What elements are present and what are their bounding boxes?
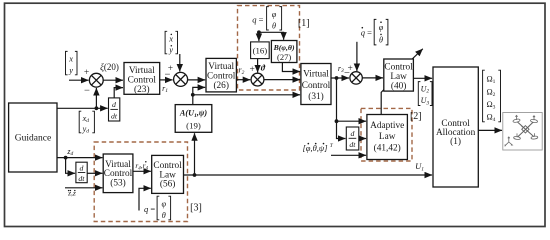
svg-text:(40): (40) — [391, 80, 407, 91]
wire A19 node down to A19 box top — [192, 95, 194, 105]
block A(U1,psi) (19) — [175, 105, 212, 133]
svg-text:−: − — [84, 85, 90, 96]
svg-text:ξ(20): ξ(20) — [100, 62, 119, 72]
label vector xd yd — [79, 111, 94, 133]
wire zddot zdot into Virtual Control 53 — [65, 187, 102, 189]
svg-text:x: x — [68, 53, 73, 63]
svg-text:(26): (26) — [213, 80, 229, 91]
svg-text:φ: φ — [379, 23, 384, 32]
wire Virtual Control 53 to Control Law 56 — [133, 170, 151, 172]
wire node down into ddt3 — [337, 121, 346, 138]
label qdot equals phidot thetadot — [361, 19, 388, 45]
svg-text:Ω1: Ω1 — [486, 75, 495, 85]
svg-text:U1: U1 — [415, 161, 424, 172]
svg-text:Control: Control — [302, 81, 331, 91]
wire S1 to Virtual Control 23 — [103, 79, 123, 81]
svg-text:U2: U2 — [421, 84, 430, 94]
label vector U2 U3 — [418, 82, 432, 107]
wire zd branch down into ddt2 — [66, 158, 76, 174]
summing junction S3 — [251, 73, 264, 86]
svg-text:Guidance: Guidance — [15, 134, 51, 144]
label q equals phi theta (box 3) — [144, 196, 171, 220]
svg-text:(31): (31) — [308, 91, 324, 102]
svg-text:zd: zd — [66, 147, 73, 157]
svg-text:q =: q = — [361, 28, 372, 38]
quadrotor icon — [517, 122, 534, 137]
wire S3 to Virtual Control 31 — [264, 79, 300, 81]
svg-text:Law: Law — [390, 72, 407, 82]
svg-text:z,z: z,z — [67, 188, 76, 197]
svg-text:U3: U3 — [421, 96, 430, 106]
svg-text:[2]: [2] — [410, 111, 422, 122]
svg-text:θ: θ — [162, 211, 166, 220]
wire Virtual Control 31 to S4 — [331, 77, 349, 79]
svg-text:Adaptive: Adaptive — [370, 121, 404, 131]
label q equals phi theta (box 1) — [252, 7, 281, 31]
block Adaptive Law (41,42) — [367, 115, 408, 160]
block Virtual Control (23) — [124, 63, 160, 95]
svg-text:Control: Control — [384, 62, 413, 72]
svg-text:(16): (16) — [253, 45, 268, 55]
dashed subsystem box [3] — [94, 142, 187, 222]
svg-text:Control: Control — [128, 76, 157, 86]
wire q vector right into B block 27 — [259, 32, 284, 39]
block quadrotor plant — [503, 113, 542, 151]
svg-text:dt: dt — [78, 174, 85, 183]
dashed subsystem box [2] — [361, 108, 412, 161]
wire ddt2 to Virtual Control 53 — [87, 172, 102, 174]
svg-text:Control: Control — [207, 71, 236, 81]
wire U1 branch up into A19 bottom — [194, 133, 196, 175]
wire Virtual Control 23 to S2 — [160, 79, 173, 81]
svg-text:d: d — [79, 163, 83, 172]
block Guidance — [9, 103, 57, 172]
wire node into Adaptive Law top input — [337, 120, 367, 122]
svg-text:φ: φ — [272, 10, 277, 19]
svg-text:r4,r4: r4,r4 — [135, 161, 148, 171]
wire B27 into Virtual Control 31 — [282, 63, 300, 72]
svg-text:Virtual: Virtual — [129, 66, 155, 76]
svg-text:θ: θ — [379, 35, 383, 44]
svg-text:(19): (19) — [186, 120, 201, 130]
wire Guidance zd to Virtual Control 53 — [57, 157, 102, 159]
svg-text:(23): (23) — [134, 84, 150, 95]
wire qdot vector down into S4 — [356, 42, 358, 71]
svg-text:(53): (53) — [110, 177, 126, 188]
svg-text:(1): (1) — [450, 136, 461, 147]
svg-text:−: − — [344, 68, 350, 79]
svg-text:r3: r3 — [338, 64, 344, 74]
summing junction S2 — [174, 72, 188, 86]
svg-text:[1]: [1] — [298, 18, 310, 29]
label vector x y — [66, 51, 78, 74]
svg-text:xd: xd — [82, 114, 90, 124]
svg-text:φ: φ — [162, 199, 167, 208]
wire diagonal output from Control Law 40 — [407, 49, 423, 64]
block (16) — [251, 42, 270, 59]
d/dt 2 fraction — [78, 163, 86, 182]
svg-text:Ω2: Ω2 — [486, 87, 495, 97]
svg-text:yd: yd — [82, 124, 90, 134]
block Control Law (40) — [384, 59, 414, 91]
svg-text:y: y — [68, 65, 73, 75]
svg-text:[3]: [3] — [190, 202, 202, 213]
svg-text:q =: q = — [144, 204, 155, 214]
wire q vector down into block 16 — [258, 31, 260, 41]
svg-text:(56): (56) — [160, 179, 176, 190]
wire Control Law 40 to Control Allocation — [414, 77, 433, 79]
svg-text:q =: q = — [252, 14, 263, 24]
svg-text:dt: dt — [111, 112, 118, 121]
svg-text:Ω3: Ω3 — [486, 100, 495, 110]
block Control Law (56) — [152, 155, 184, 193]
block B(phi,theta) (27) — [271, 41, 297, 63]
wire U1 from Control Law 56 to Control Allocation — [184, 174, 432, 176]
svg-text:Virtual: Virtual — [303, 70, 329, 80]
wire [x;y] into S1 — [69, 79, 89, 81]
block d/dt 3 — [346, 127, 359, 150]
svg-text:[φ,θ,ψ]: [φ,θ,ψ] — [303, 143, 328, 153]
label vector xdot ydot — [165, 31, 177, 54]
svg-text:dt: dt — [349, 140, 356, 149]
wire Virtual Control 26 to S3 — [237, 79, 251, 81]
block Control Allocation (1) — [433, 67, 478, 187]
svg-text:θ: θ — [272, 21, 276, 30]
block d/dt 2 — [76, 162, 87, 183]
summing junction S1 — [89, 73, 103, 87]
d/dt 1 fraction — [110, 100, 118, 121]
svg-text:A(U1,ψ): A(U1,ψ) — [179, 109, 207, 120]
label zddot zdot — [67, 188, 76, 197]
svg-text:Ω4: Ω4 — [486, 113, 495, 123]
wire phidot thetadot psidot into Adaptive Law bottom — [331, 154, 366, 156]
label row vector phidot thetadot psidot transpose — [303, 143, 334, 153]
wire Control Law 40 down to Adaptive Law — [381, 90, 384, 115]
svg-text:+: + — [250, 65, 255, 75]
wire [xdot;ydot] down into S2 — [179, 54, 181, 72]
wire ddt3 to Adaptive Law middle input — [359, 138, 366, 140]
block Virtual Control (26) — [206, 58, 236, 92]
svg-text:d: d — [112, 100, 116, 109]
svg-text:+: + — [84, 68, 89, 78]
wire S2 to Virtual Control 26 — [188, 79, 206, 81]
block Virtual Control (31) — [301, 64, 331, 105]
wire A19 node up into Virtual Control 26 — [193, 87, 205, 94]
block Virtual Control (53) — [103, 154, 133, 193]
wire Control Allocation to quadrotor — [479, 129, 503, 131]
wire ddt1 up into Virtual Control 23 — [114, 88, 123, 98]
wire Guidance xd,yd to ddt1 — [57, 107, 108, 109]
wire A19 node right into Virtual Control 31 — [193, 94, 300, 96]
wire S4 to Control Law 40 — [362, 77, 383, 79]
svg-text:r1: r1 — [162, 84, 168, 94]
wire r3 branch down to AL node — [336, 78, 338, 121]
wire junction up into S1 minus — [95, 88, 97, 108]
svg-text:r2: r2 — [238, 66, 244, 76]
block d/dt 1 — [109, 98, 120, 121]
svg-text:d: d — [350, 129, 354, 138]
svg-text:−: − — [164, 69, 170, 80]
svg-text:Law: Law — [379, 132, 396, 142]
svg-text:T: T — [330, 143, 334, 149]
wire block 16 down into S3 plus — [257, 59, 259, 73]
dashed subsystem box [1] — [238, 6, 300, 90]
d/dt 3 fraction — [349, 129, 357, 149]
label r4 r4dot — [135, 161, 148, 171]
svg-text:(27): (27) — [277, 52, 291, 62]
svg-text:(41,42): (41,42) — [374, 143, 401, 154]
wire q vector up into Control Law 56 — [139, 188, 151, 210]
svg-text:ϑ: ϑ — [261, 64, 266, 73]
summing junction S4 — [350, 72, 362, 84]
label vector Omega 1-4 — [483, 70, 501, 123]
